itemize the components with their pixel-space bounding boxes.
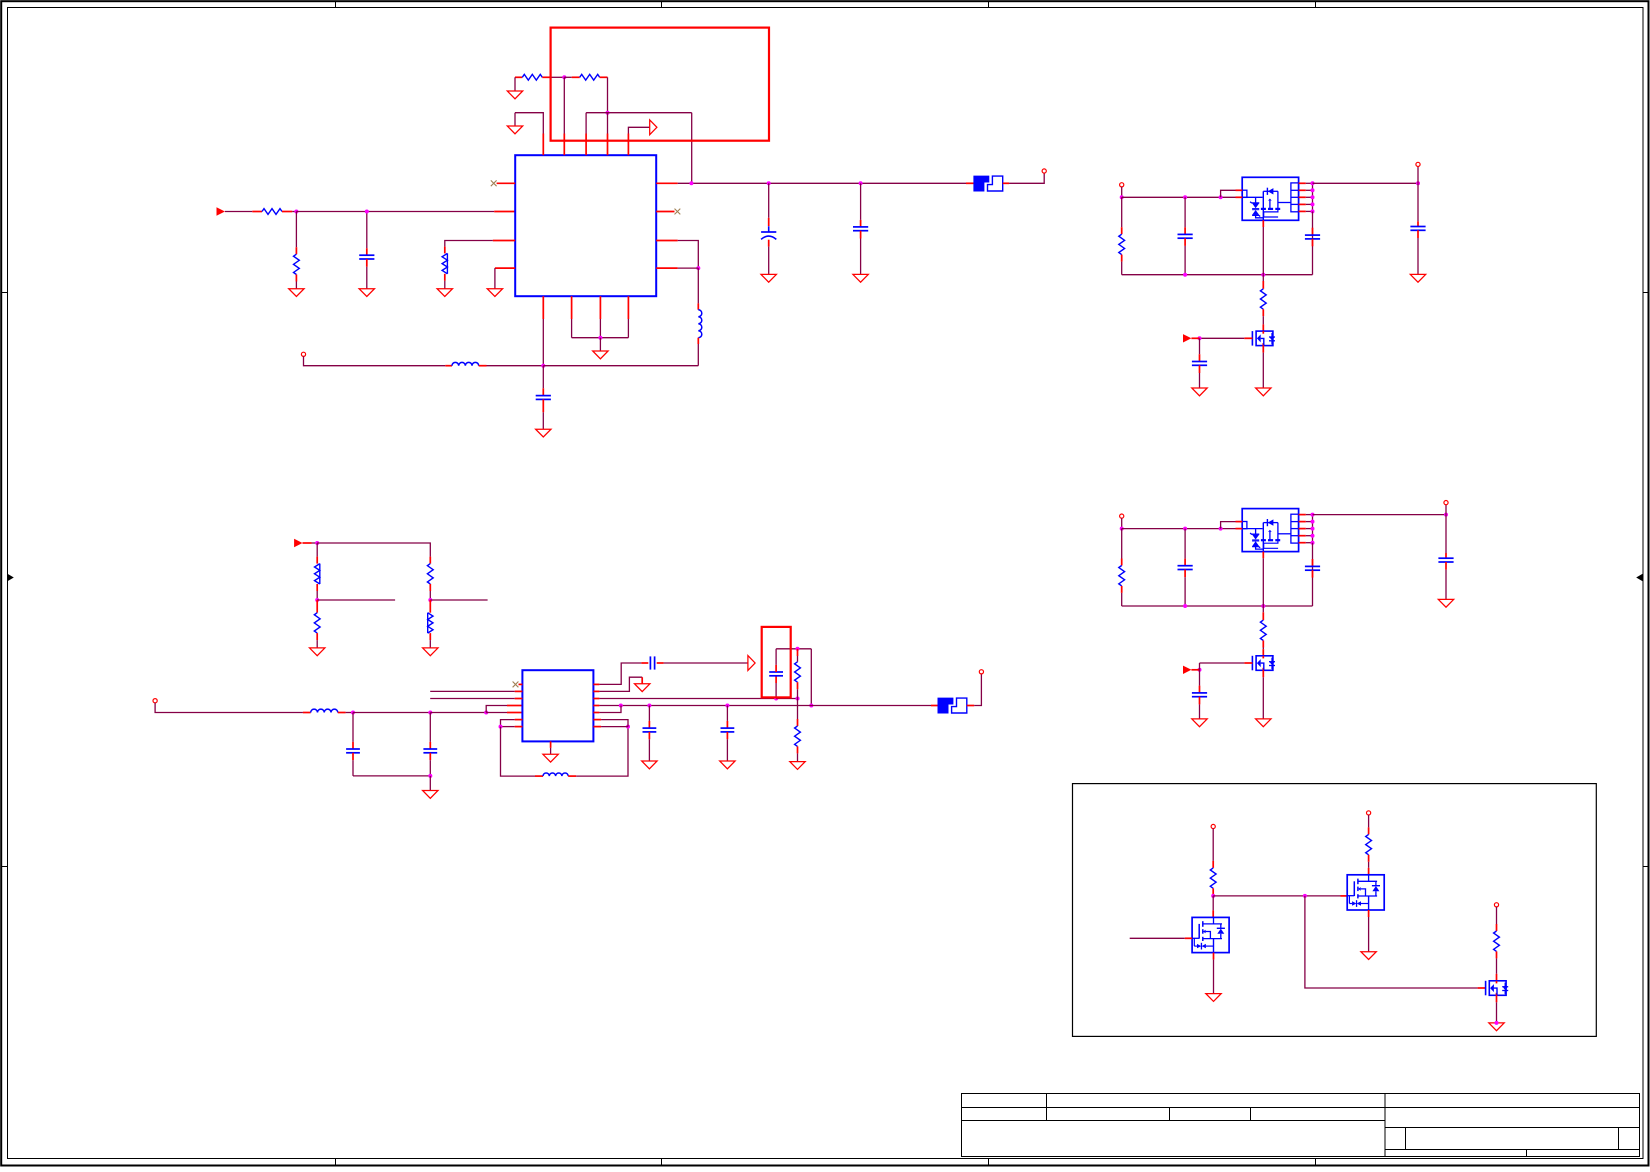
LS2 capacitor CO lead top	[1445, 553, 1447, 558]
frame tick bottom x1315.5	[1315, 1159, 1317, 1166]
LS1 capacitor CG lead bottom	[1199, 365, 1201, 373]
inductor L2 lead right	[479, 365, 487, 367]
port arrow OUT2	[748, 656, 755, 671]
inductor L1 lead bottom	[697, 338, 699, 344]
wire U2 pin R1 riser	[599, 663, 641, 684]
LS1 junction IN2	[1219, 195, 1223, 199]
resistor R11 lead top	[797, 719, 799, 726]
LS2 gate cap wire	[1199, 670, 1201, 686]
jumper J1 filled piece	[974, 176, 989, 191]
LS2 capacitor CO lead bottom	[1445, 562, 1447, 570]
wire R10 gap	[797, 656, 799, 662]
resistor R3 lead top	[444, 247, 446, 254]
wire T3 down	[155, 703, 303, 713]
wire C10 to ground	[726, 739, 728, 761]
wire U1 pin L3 to R3	[445, 241, 493, 247]
LS2 small mosfet Q body	[1256, 656, 1273, 671]
resistor R2	[294, 254, 300, 274]
wire node D1 to L1	[697, 268, 699, 303]
frame tick right y866.5	[1643, 866, 1649, 868]
title block right row line 3	[1385, 1149, 1640, 1151]
U2 pin R6 stub	[593, 719, 601, 721]
capacitor C5 lead bottom	[352, 753, 354, 760]
wire R8 to node E3	[429, 591, 431, 600]
wire port to node E1	[312, 542, 318, 544]
LS1 input wire	[1122, 196, 1236, 198]
junction output node C1	[689, 181, 693, 185]
jumper J2 filled piece	[938, 698, 953, 713]
inductor L4	[543, 773, 568, 776]
junction node I1	[619, 704, 623, 708]
capacitor C2 (polarized)	[768, 226, 770, 232]
power mosfet module Q1 body	[1192, 917, 1229, 952]
junction node H3	[796, 647, 800, 651]
frame tick top x661.5	[661, 2, 663, 8]
resistor R14 lead top	[1496, 924, 1498, 931]
wire node H1 to RZ bottom	[776, 698, 797, 700]
red highlight box 2	[762, 627, 791, 698]
wire R10 to node H2	[797, 689, 799, 698]
resistor R6 lead top	[316, 557, 318, 564]
frame tick left y292.5	[2, 292, 8, 294]
junction node F1	[351, 711, 355, 715]
LS1 resistor RL wire top	[1121, 197, 1123, 227]
LS1 RG wire bottom	[1262, 316, 1264, 324]
LS2 resistor RG lead top	[1262, 612, 1264, 620]
junction node H4	[809, 704, 813, 708]
wire row to U1 pin T3	[585, 113, 587, 134]
capacitor C6 lead top	[429, 742, 431, 749]
LS2 capacitor CG lead bottom	[1199, 697, 1201, 705]
LS2 output cap wire	[1445, 515, 1447, 553]
U2 pin L7 stub	[515, 726, 523, 728]
capacitor C2 lead top	[768, 218, 770, 226]
wire node F1 down	[352, 713, 354, 742]
resistor R12	[1210, 868, 1216, 888]
LS1 RG wire top	[1262, 275, 1264, 281]
wire node C3 down	[860, 183, 862, 220]
LS2 resistor RL lead bottom	[1121, 586, 1123, 593]
U1 pin R4 stub	[656, 267, 678, 269]
LS1 bus up to pin bus	[1312, 211, 1314, 274]
LS2 output junction	[1444, 513, 1448, 517]
wire U2 pin R7 to node G2	[601, 726, 628, 728]
capacitor C8 lead top	[775, 665, 777, 672]
wire R3 to ground	[444, 281, 446, 289]
power mosfet module Q2 body	[1347, 875, 1384, 910]
enclosure box	[1073, 784, 1597, 1037]
resistor R8 lead bottom	[429, 584, 431, 591]
capacitor C10 lead bottom	[726, 732, 728, 739]
wire C2 to ground	[768, 247, 770, 275]
LS2 ground GO	[1438, 599, 1453, 607]
junction output node C3	[859, 181, 863, 185]
title block left row line 1	[962, 1107, 1386, 1109]
wire node G1 down to loop	[501, 727, 536, 777]
capacitor C3 lead top	[860, 220, 862, 227]
port VIN arrow	[217, 207, 225, 215]
wire U2 output line	[599, 705, 931, 707]
junction ground tie	[598, 336, 602, 340]
resistor R6	[315, 564, 320, 584]
LS2 RG wire bottom	[1262, 648, 1264, 650]
LS2 input wire	[1122, 528, 1236, 530]
frame tick top x988.5	[988, 2, 990, 8]
inductor L3 lead left	[303, 712, 311, 714]
LS1 gate junction	[1198, 336, 1202, 340]
LS1 gate cap wire	[1199, 338, 1201, 354]
wire jumper J2 to terminal	[974, 674, 981, 706]
wire R14 to Q3	[1496, 958, 1498, 973]
LS1 module left pin stub upper	[1236, 189, 1243, 191]
U1 pin L1 stub (no connect)	[497, 182, 516, 184]
resistor R13 lead top	[1368, 827, 1370, 834]
Q3 drain stub	[1496, 974, 1498, 981]
junction output node C2	[767, 181, 771, 185]
LS1 resistor RL lead bottom	[1121, 255, 1123, 262]
VREF port stub	[303, 542, 312, 544]
resistor R8 lead top	[429, 557, 431, 564]
junction node H2	[796, 697, 800, 701]
ground G8	[853, 274, 868, 282]
LS1 bus junction 2	[1261, 273, 1265, 277]
inductor L2 lead left	[445, 365, 452, 367]
LS1 capacitor CO lead top	[1417, 221, 1419, 226]
junction node D1	[696, 266, 700, 270]
wire node B1 down to U1	[563, 77, 565, 133]
ground G2	[359, 289, 374, 297]
wire loop right	[576, 727, 628, 777]
LS1 mosfet gate stub	[1244, 337, 1252, 339]
junction node J2	[1303, 894, 1307, 898]
U1 pin L4 stub	[495, 267, 515, 269]
capacitor C10 lead top	[726, 721, 728, 728]
junction node E2	[315, 598, 319, 602]
U2 pin R2 ground stub	[641, 677, 643, 684]
wire U2 pin R2 bend	[599, 677, 642, 691]
wire C1 to ground	[366, 267, 368, 289]
LS2 capacitor CR lead top	[1312, 559, 1314, 566]
wire C8 bottom	[775, 683, 777, 699]
LS2 gate port arrow	[1183, 666, 1191, 674]
resistor R4 lead left	[515, 76, 522, 78]
LS2 resistor RL	[1119, 566, 1125, 586]
ground G19	[1206, 994, 1221, 1002]
wire row right down to output node	[691, 113, 693, 184]
resistor R7 lead bottom	[316, 633, 318, 640]
wire node H2 down	[797, 699, 799, 720]
U2 pin L5 stub	[507, 712, 522, 714]
LS2 output terminal	[1444, 501, 1448, 505]
power module LS2 body	[1242, 509, 1298, 552]
capacitor C7	[649, 656, 651, 669]
wire U2 pin R3 long	[599, 698, 776, 700]
wire U1 pin L4 to ground	[494, 268, 496, 289]
inductor L3	[311, 709, 338, 712]
LS1 output junction	[1416, 181, 1420, 185]
terminal T1	[1042, 169, 1046, 173]
power module LS1 pin bus	[1312, 183, 1314, 211]
junction node E3	[428, 598, 432, 602]
LS2 capacitor CM lead top	[1184, 559, 1186, 566]
capacitor C1 lead bottom	[366, 259, 368, 267]
junction C1 tap	[365, 210, 369, 214]
inductor L1	[698, 310, 702, 338]
resistor R3 lead bottom	[444, 274, 446, 281]
resistor R5	[580, 74, 600, 80]
LS1 resistor RL	[1119, 234, 1125, 254]
resistor R1	[262, 209, 282, 215]
frame mid arrow right	[1636, 574, 1643, 582]
LS1 capacitor CR lead top	[1312, 228, 1314, 235]
terminal T2	[301, 352, 305, 356]
ground G18	[720, 761, 735, 769]
LS2 capacitor CO	[1438, 557, 1453, 559]
resistor R4 lead right	[542, 76, 550, 78]
ground G3	[437, 289, 452, 297]
terminal T4	[979, 670, 983, 674]
wire Q1 gate line	[1130, 937, 1185, 939]
LS1 ground GS	[1256, 388, 1271, 396]
wire feedback row	[586, 112, 692, 114]
capacitor C7 lead left	[641, 662, 648, 664]
ground G12	[423, 648, 438, 656]
wire T6 down	[1368, 815, 1370, 827]
U2 pin L4 stub	[507, 705, 522, 707]
capacitor C7 lead right	[657, 662, 664, 664]
ground G15	[635, 684, 650, 692]
no-connect X on U2 pin L1	[513, 682, 519, 688]
U2 pin R1 stub	[593, 683, 599, 685]
inductor L1 lead top	[697, 303, 699, 309]
wire node F1 to node F2	[353, 712, 430, 714]
port arrow OUT1	[650, 120, 657, 135]
power module LS1 body	[1242, 177, 1298, 220]
LS2 capacitor CG	[1192, 692, 1207, 694]
no-connect X on U1 pin L1	[491, 180, 497, 186]
resistor R6 lead bottom	[316, 584, 318, 591]
ground G6	[507, 126, 522, 134]
frame tick top x1315.5	[1315, 2, 1317, 8]
LS2 gate riser	[1199, 663, 1201, 670]
resistor R2 lead top	[295, 247, 297, 254]
LS1 mosfet drain stub	[1262, 324, 1264, 331]
LS1 resistor RG lead top	[1262, 281, 1264, 289]
LS1 module left pin stub lower	[1236, 196, 1243, 198]
LS2 mosfet gate stub	[1244, 662, 1252, 664]
wire R4 left to ground	[514, 77, 516, 91]
LS1 ground GG	[1192, 388, 1207, 396]
LS1 input terminal	[1120, 183, 1124, 187]
LS1 cap CM wire bottom	[1184, 246, 1186, 275]
LS2 bus junction 2	[1261, 604, 1265, 608]
junction node A1	[294, 210, 298, 214]
wire C5 to filter bus	[352, 760, 354, 776]
LS2 output up	[1445, 505, 1447, 515]
wire node F2 to node F3	[430, 712, 486, 714]
capacitor C3	[853, 226, 868, 228]
U1 top pin stub x564.3	[563, 134, 565, 156]
capacitor C10	[721, 727, 735, 729]
LS1 mosfet source stub	[1262, 346, 1264, 353]
LS2 capacitor CG lead top	[1199, 686, 1201, 693]
junction filter bus	[428, 774, 432, 778]
LS1 gate wire	[1200, 337, 1245, 339]
LS1 output cap wire	[1417, 183, 1419, 221]
LS2 resistor RG	[1260, 620, 1266, 640]
wire SW rail right	[543, 365, 698, 367]
ground G7	[761, 274, 776, 282]
title block right outline	[1385, 1094, 1640, 1157]
wire U2 bottom pin	[550, 748, 552, 754]
resistor R5 lead left	[572, 76, 580, 78]
LS2 capacitor CR	[1305, 565, 1320, 567]
power module LS2 pin bus	[1312, 515, 1314, 543]
red highlight box 1	[551, 28, 769, 141]
LS1 capacitor CR	[1305, 234, 1320, 236]
LS1 source wire	[1262, 353, 1264, 388]
wire C7 to port	[664, 662, 748, 664]
U2 pin L1 stub (no connect)	[519, 683, 523, 685]
wire node J1 to Q2 gate	[1213, 895, 1340, 897]
wire filter bus to ground	[429, 776, 431, 791]
LS1 capacitor CG	[1192, 361, 1207, 363]
wire node J2 down	[1305, 896, 1478, 988]
wire node B2 to U1 pin T4	[607, 113, 609, 134]
terminal T3	[153, 699, 157, 703]
title block right divider E	[1618, 1128, 1620, 1150]
wire R9 to ground	[429, 640, 431, 648]
LS1 junction IN1	[1183, 195, 1187, 199]
ground G17	[642, 761, 657, 769]
capacitor C9 lead top	[648, 721, 650, 728]
wire node E1 to corner	[317, 543, 430, 557]
LS2 resistor RL wire bottom	[1121, 593, 1123, 606]
ground G21	[1489, 1023, 1504, 1031]
U2 pin L3 stub	[515, 698, 523, 700]
LS1 cap CG to ground	[1199, 373, 1201, 388]
U1 pin B3 stub	[599, 296, 601, 319]
LS2 bus up to pin bus	[1312, 543, 1314, 606]
title block divider A	[1046, 1094, 1048, 1121]
capacitor C1 lead top	[366, 248, 368, 255]
resistor R8	[427, 564, 433, 584]
port VREF arrow	[294, 539, 302, 547]
inductor L4 lead right	[568, 775, 576, 777]
wire VIN to R1	[225, 211, 252, 213]
junction node G1	[499, 725, 503, 729]
LS2 mosfet source stub	[1262, 670, 1264, 677]
resistor R12 lead top	[1212, 861, 1214, 868]
U2 pin R2 stub	[593, 690, 599, 692]
LS2 bottom bus	[1122, 605, 1313, 607]
LS2 cap CG to ground	[1199, 704, 1201, 719]
ground G1	[289, 289, 304, 297]
capacitor C4 lead bottom	[542, 399, 544, 412]
wire T5 down	[1212, 829, 1214, 861]
U1 top pin stub x543.3	[542, 134, 544, 156]
junction node I3	[725, 704, 729, 708]
capacitor C5 lead top	[352, 742, 354, 749]
frame tick bottom x988.5	[988, 1159, 990, 1166]
LS2 ground GG	[1192, 719, 1207, 727]
jumper J1 open piece	[988, 176, 1003, 191]
ground G10	[536, 429, 551, 437]
ground G11	[310, 648, 325, 656]
LS1 output rail	[1313, 182, 1419, 184]
frame tick bottom x661.5	[661, 1159, 663, 1166]
capacitor C9 lead bottom	[648, 732, 650, 739]
junction node E1	[315, 541, 319, 545]
Q1 source stub	[1213, 953, 1215, 960]
wire snubber right leg	[810, 649, 812, 706]
ground G16	[790, 762, 805, 770]
terminal T6	[1367, 811, 1371, 815]
wire node E3 tap	[430, 599, 487, 601]
Q3 gate stub	[1478, 987, 1486, 989]
wire Q3 source to ground	[1496, 1002, 1498, 1023]
resistor R9 lead bottom	[429, 633, 431, 640]
title block divider C	[1250, 1108, 1252, 1121]
wire node A1 down	[295, 212, 297, 248]
LS2 source wire	[1262, 677, 1264, 719]
IC U1 body	[515, 155, 656, 296]
LS1 capacitor CM lead top	[1184, 227, 1186, 234]
Q3 source stub	[1496, 995, 1498, 1002]
wire U2 pin L3 left	[430, 698, 515, 700]
LS1 wire terminal down	[1121, 187, 1123, 197]
wire U1 pin B3 down	[599, 319, 601, 338]
wire R7 to ground	[316, 640, 318, 648]
U1 pin B1 stub	[542, 296, 544, 319]
resistor R10	[795, 662, 801, 682]
LS2 capacitor CM lead bottom	[1184, 570, 1186, 578]
wire C9 to ground	[648, 739, 650, 761]
LS1 resistor RL wire bottom	[1121, 262, 1123, 275]
junction node B2	[606, 111, 610, 115]
U2 pin R3 stub	[593, 698, 599, 700]
wire U2 pin R5 riser	[599, 706, 621, 713]
LS2 bus junction 1	[1183, 604, 1187, 608]
output rail stub into jumper	[966, 182, 974, 184]
ground G9	[593, 351, 608, 359]
resistor R1 lead right	[282, 211, 292, 213]
wire L-branch horizontal	[515, 113, 543, 134]
wire L2 to SW node	[487, 365, 544, 367]
junction node H1	[774, 697, 778, 701]
wire node J1 down to Q1	[1212, 896, 1214, 911]
resistor R13	[1366, 834, 1372, 854]
U2 pin R4 stub	[593, 705, 599, 707]
LS1 output terminal	[1416, 162, 1420, 166]
wire ground tie row	[572, 337, 629, 339]
capacitor C8 lead bottom	[775, 676, 777, 683]
title block right divider F	[1526, 1150, 1528, 1157]
LS1 module bottom pin stub	[1262, 220, 1264, 227]
capacitor C4	[536, 395, 551, 397]
wire node I2 down	[648, 706, 650, 721]
resistor R11	[795, 726, 801, 746]
wire node A1 to U1 pin L2	[296, 211, 494, 213]
wire SW node down	[542, 366, 544, 389]
U2 pin L2 stub	[515, 690, 523, 692]
wire Q2 source to ground	[1368, 917, 1370, 952]
wire tie to ground	[599, 338, 601, 351]
LS2 cap CM wire top	[1184, 529, 1186, 559]
jumper J2 open piece	[952, 698, 967, 713]
terminal T5	[1211, 824, 1215, 828]
wire U1 pin B2 down	[571, 319, 573, 338]
